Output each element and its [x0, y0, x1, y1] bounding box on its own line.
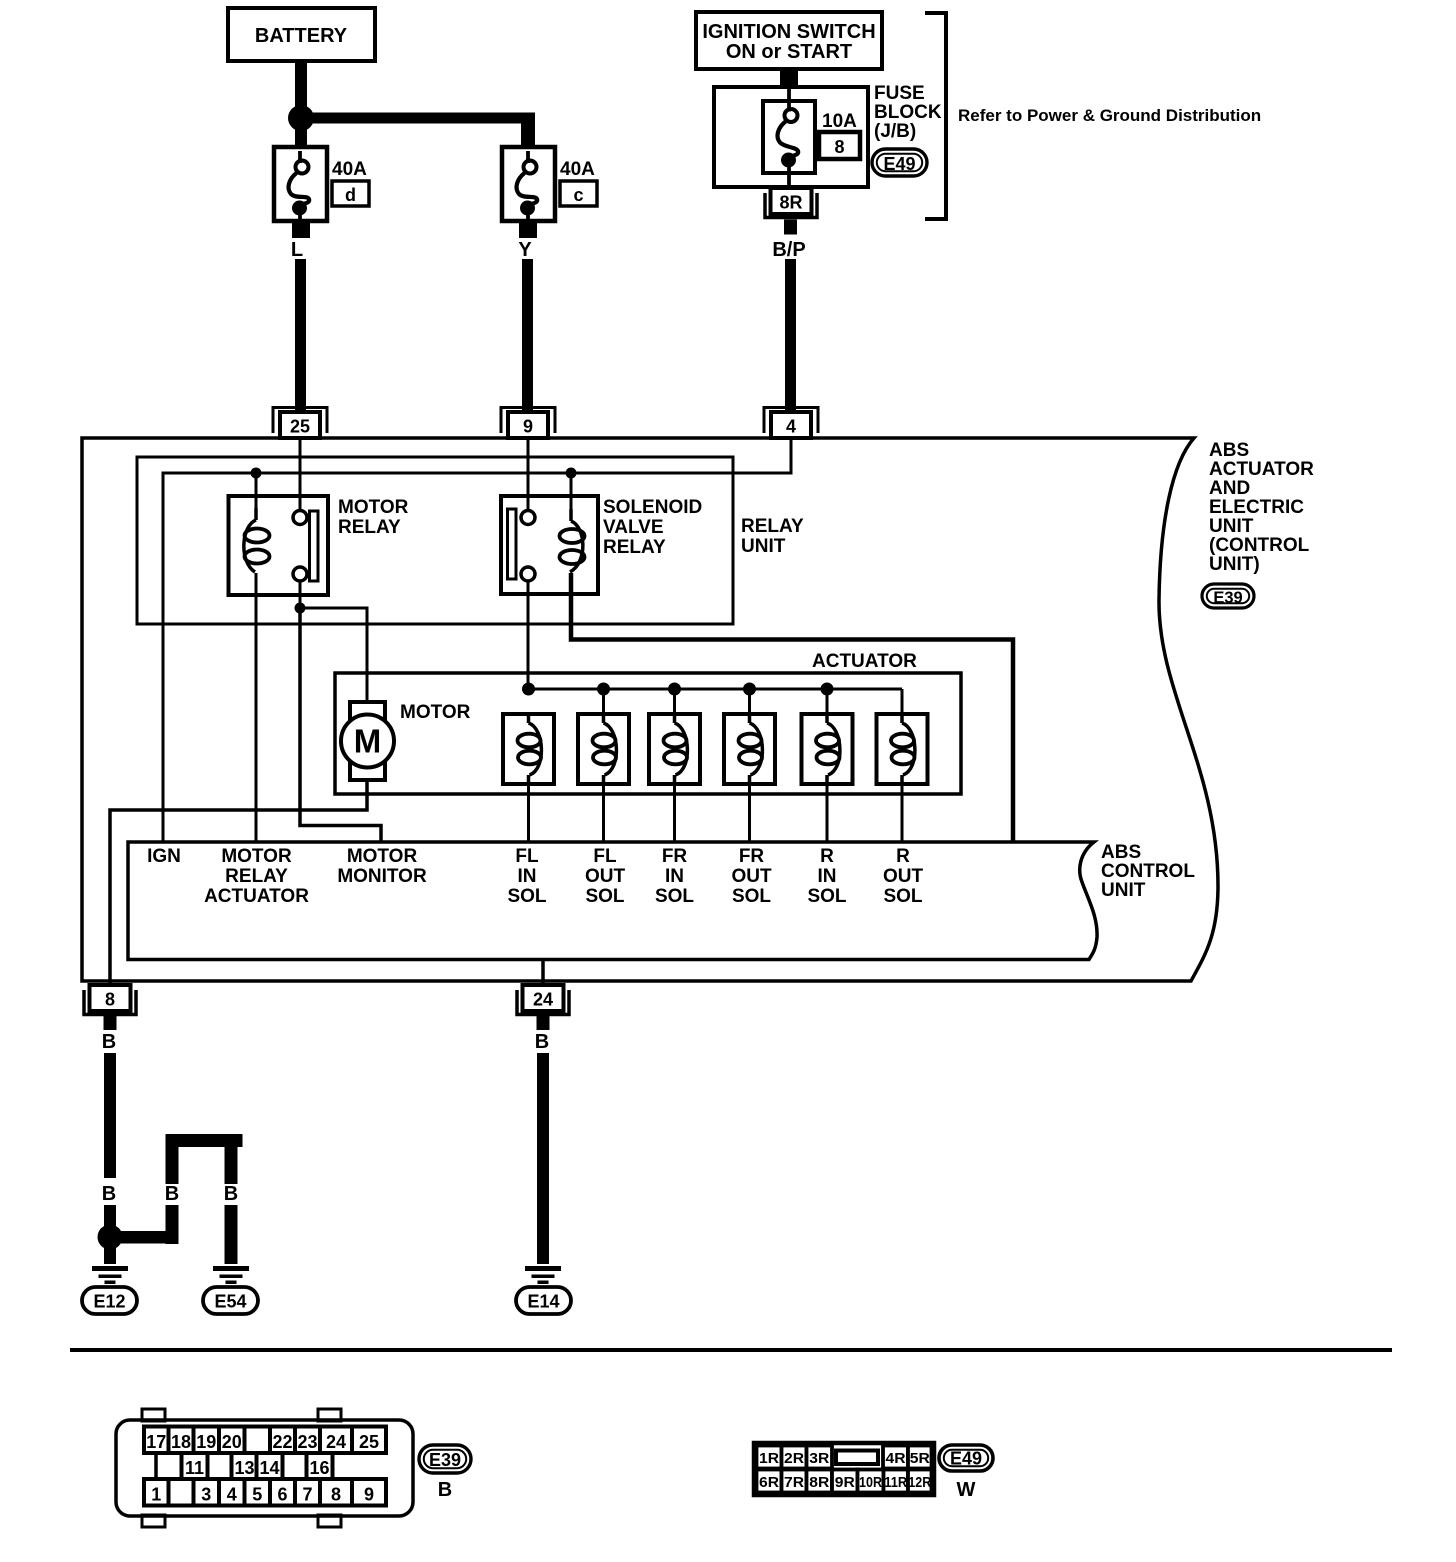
svg-text:SOL: SOL: [655, 886, 694, 907]
svg-text:B/P: B/P: [772, 239, 805, 261]
wire E54 branch down upper (thick): [225, 1147, 238, 1184]
wire stub below fusible link c: [519, 221, 537, 238]
battery B+ feed: BATTERY box: [228, 8, 375, 61]
wire coil feed solenoid valve relay: [570, 473, 573, 509]
terminal box d: [332, 181, 369, 206]
svg-text:17: 17: [146, 1432, 166, 1452]
svg-text:E39: E39: [429, 1450, 461, 1470]
ground symbol E14: [525, 1266, 561, 1271]
svg-text:22: 22: [272, 1432, 292, 1452]
svg-text:MONITOR: MONITOR: [337, 866, 427, 887]
svg-text:11R: 11R: [884, 1474, 907, 1491]
svg-text:14: 14: [259, 1458, 279, 1478]
connector E39 pin row 17-25: [144, 1427, 169, 1454]
svg-text:ABS: ABS: [1209, 440, 1249, 461]
svg-text:IN: IN: [665, 866, 684, 887]
wire B from pin 24 to E14 (thick): [537, 1053, 549, 1264]
fuse number box 8: [819, 132, 860, 159]
relay K1 contact bottom: [293, 567, 307, 581]
relay K2 contact top: [521, 511, 535, 525]
svg-text:RELAY: RELAY: [338, 517, 401, 538]
relay unit box: [137, 457, 733, 624]
svg-text:AND: AND: [1209, 478, 1250, 499]
ground label E54 oval: [203, 1287, 258, 1314]
svg-text:13: 13: [234, 1458, 254, 1478]
svg-text:12R: 12R: [908, 1474, 931, 1491]
svg-text:(CONTROL: (CONTROL: [1209, 535, 1310, 556]
svg-text:R: R: [896, 846, 910, 867]
wire solenoid FL IN to control unit pin: [527, 784, 530, 842]
svg-text:BATTERY: BATTERY: [255, 25, 348, 47]
wire junction down to fusible link d (thick): [295, 128, 307, 148]
svg-text:MOTOR: MOTOR: [338, 497, 409, 518]
svg-text:W: W: [957, 1479, 976, 1501]
svg-text:MOTOR: MOTOR: [400, 702, 471, 723]
svg-text:ACTUATOR: ACTUATOR: [812, 651, 917, 672]
solenoid FL IN coil: [527, 714, 531, 723]
wire E12 below junction (thick): [104, 1245, 116, 1264]
relay K2 solenoid valve relay box: [501, 496, 598, 594]
svg-text:4: 4: [786, 417, 796, 437]
svg-text:9: 9: [523, 417, 533, 437]
relay K1 armature bar: [310, 511, 319, 581]
svg-text:RELAY: RELAY: [603, 537, 666, 558]
terminal box c: [560, 181, 597, 206]
svg-text:24: 24: [326, 1432, 346, 1452]
svg-text:25: 25: [290, 417, 310, 437]
node solenoid bus junction FL IN: [522, 683, 535, 696]
wire pin9 to solenoid relay contact: [527, 438, 530, 511]
svg-text:IN: IN: [818, 866, 837, 887]
svg-text:SOL: SOL: [507, 886, 546, 907]
svg-text:BLOCK: BLOCK: [874, 102, 942, 123]
svg-text:SOL: SOL: [883, 886, 922, 907]
svg-text:8: 8: [331, 1485, 341, 1505]
svg-text:E54: E54: [214, 1292, 246, 1312]
relay K2 contact bottom: [521, 567, 535, 581]
svg-text:1: 1: [151, 1485, 161, 1505]
wire stub below pin 24: [537, 1016, 550, 1030]
svg-text:IGN: IGN: [147, 846, 181, 867]
wire B to junction (thick): [104, 1205, 116, 1229]
svg-text:6R: 6R: [759, 1474, 779, 1491]
wire bus to solenoid R IN: [826, 689, 829, 714]
node junction below motor relay: [295, 603, 306, 614]
svg-text:10R: 10R: [859, 1474, 882, 1491]
wire bus to solenoid R OUT: [901, 689, 904, 714]
svg-text:CONTROL: CONTROL: [1101, 861, 1195, 882]
connector E39 pin row 11-16: [154, 1453, 158, 1479]
wire solenoid relay contact to solenoid bus: [527, 581, 530, 689]
svg-text:SOL: SOL: [585, 886, 624, 907]
fuse block J/B outer box: [714, 87, 868, 187]
wire junction to motor: [300, 608, 367, 702]
svg-text:2R: 2R: [784, 1450, 804, 1467]
svg-text:3R: 3R: [809, 1450, 829, 1467]
svg-text:40A: 40A: [560, 159, 595, 180]
svg-text:ACTUATOR: ACTUATOR: [204, 886, 309, 907]
fuse 10A symbol: [787, 87, 791, 112]
wire stub below fusible link d: [292, 221, 310, 238]
svg-text:9: 9: [364, 1485, 374, 1505]
svg-text:UNIT: UNIT: [1101, 880, 1146, 901]
svg-text:d: d: [345, 185, 356, 205]
wire E54 branch top (thick): [166, 1134, 243, 1147]
svg-text:RELAY: RELAY: [741, 516, 804, 537]
svg-text:19: 19: [196, 1432, 216, 1452]
svg-text:B: B: [165, 1183, 179, 1205]
wire B/P (thick) to pin 4: [785, 259, 796, 413]
connector E39 pin row 1-9: [144, 1479, 169, 1506]
svg-text:6: 6: [277, 1485, 287, 1505]
wire pin25 to motor relay contact: [299, 438, 302, 511]
svg-text:OUT: OUT: [731, 866, 772, 887]
wire battery to junction (thick): [295, 59, 307, 107]
svg-text:10A: 10A: [822, 111, 857, 132]
wire branch corner down to fusible link c (thick): [521, 113, 535, 149]
ground symbol E12: [92, 1266, 128, 1271]
wire E54 branch left riser upper (thick): [166, 1134, 179, 1184]
fusible link d 40A box: [274, 147, 327, 221]
wire stub ignition switch to fuse block: [780, 69, 798, 87]
connector pin 9: [501, 408, 555, 434]
svg-text:E49: E49: [883, 154, 915, 174]
wire Y (thick) to pin 9: [522, 259, 533, 413]
svg-text:7: 7: [302, 1485, 312, 1505]
svg-text:18: 18: [171, 1432, 191, 1452]
svg-text:16: 16: [309, 1458, 329, 1478]
ABS actuator and electric unit (control unit) outline E39: [82, 438, 1218, 981]
IGNITION SWITCH box: [696, 12, 882, 69]
node ground junction dot: [98, 1225, 123, 1250]
wire coil feed motor relay: [255, 473, 258, 508]
node solenoid bus junction FR OUT: [743, 683, 756, 696]
svg-text:E12: E12: [93, 1292, 125, 1312]
svg-text:7R: 7R: [784, 1474, 804, 1491]
connector E49 label oval: [939, 1445, 993, 1471]
svg-text:SOL: SOL: [732, 886, 771, 907]
svg-text:23: 23: [297, 1432, 317, 1452]
solenoid R OUT box: [877, 714, 928, 784]
wire solenoid FL OUT to control unit pin: [602, 784, 605, 842]
svg-text:5: 5: [252, 1485, 262, 1505]
connector pin 24: [523, 985, 564, 1011]
wire L (thick) to pin 25: [295, 259, 306, 413]
svg-text:ON or START: ON or START: [726, 41, 852, 63]
solenoid FR IN box: [649, 714, 700, 784]
wire bus to solenoid FR OUT: [748, 689, 751, 714]
svg-text:8: 8: [105, 990, 115, 1010]
svg-text:20: 20: [222, 1432, 242, 1452]
solenoid FR IN coil: [673, 714, 677, 723]
svg-text:11: 11: [185, 1458, 204, 1478]
solenoid FR OUT box: [724, 714, 775, 784]
wire solenoid FR OUT to control unit pin: [748, 784, 751, 842]
connector E49 pin row 1R-5R: [757, 1446, 782, 1469]
svg-text:E39: E39: [1213, 589, 1242, 607]
node junction dot motor relay coil: [251, 468, 262, 479]
wire solenoid R IN to control unit pin: [826, 784, 829, 842]
solenoid FR OUT coil: [748, 714, 752, 723]
connector pin 25: [273, 408, 327, 434]
node battery junction dot: [288, 105, 314, 131]
svg-text:E49: E49: [950, 1449, 982, 1469]
wire motor relay contact down: [299, 581, 302, 604]
svg-text:c: c: [573, 185, 583, 205]
relay K2 coil: [569, 509, 573, 521]
wire control unit to pin 24: [541, 959, 545, 985]
svg-text:UNIT): UNIT): [1209, 554, 1260, 575]
svg-text:8R: 8R: [779, 193, 802, 213]
connector E49 pin row 6R-12R: [757, 1470, 782, 1493]
svg-text:E14: E14: [527, 1292, 559, 1312]
connector E49 pinout housing: [754, 1443, 934, 1495]
solenoid R IN box: [802, 714, 853, 784]
solenoid FL IN box: [503, 714, 554, 784]
wire junction to E54 branch (thick): [110, 1231, 172, 1244]
svg-text:FUSE: FUSE: [874, 83, 925, 104]
wire solenoid FR IN to control unit pin: [673, 784, 676, 842]
solenoid R OUT coil: [900, 714, 904, 723]
svg-text:FL: FL: [593, 846, 617, 867]
relay K1 motor relay box: [229, 496, 329, 595]
connector label E49 oval: [872, 149, 927, 176]
svg-text:FL: FL: [515, 846, 539, 867]
svg-text:4: 4: [227, 1485, 237, 1505]
wire junction to MOTOR MONITOR pin: [300, 608, 381, 842]
ground label E14 oval: [516, 1287, 571, 1314]
svg-text:UNIT: UNIT: [1209, 516, 1254, 537]
wire solenoid R OUT to control unit pin: [901, 784, 904, 842]
connector E39 pinout housing: [116, 1420, 413, 1516]
wire solenoid relay coil to control unit: [571, 573, 1013, 842]
svg-text:M: M: [354, 723, 382, 760]
separator rule: [70, 1348, 1392, 1352]
svg-text:MOTOR: MOTOR: [221, 846, 292, 867]
svg-text:40A: 40A: [332, 159, 367, 180]
node solenoid bus junction R IN: [821, 683, 834, 696]
svg-text:SOL: SOL: [807, 886, 846, 907]
wire E54 branch left riser lower (thick): [166, 1205, 179, 1244]
solenoid FL OUT coil: [602, 714, 606, 723]
svg-text:UNIT: UNIT: [741, 536, 786, 557]
svg-text:ABS: ABS: [1101, 842, 1141, 863]
solenoid R IN coil: [825, 714, 829, 723]
ground symbol E54: [213, 1266, 249, 1271]
svg-text:4R: 4R: [886, 1450, 906, 1467]
wire B from pin 8 (thick): [104, 1053, 116, 1178]
svg-text:B: B: [102, 1031, 116, 1053]
wire solenoid bus: [528, 688, 902, 691]
svg-text:B: B: [535, 1031, 549, 1053]
svg-text:24: 24: [533, 990, 553, 1010]
svg-text:8R: 8R: [809, 1474, 829, 1491]
actuator box: [335, 673, 961, 794]
connector E39 label oval: [419, 1445, 471, 1473]
motor M1 frame: [350, 702, 385, 780]
svg-text:FR: FR: [739, 846, 765, 867]
ABS control unit box: [128, 842, 1097, 960]
svg-text:25: 25: [359, 1432, 379, 1452]
connector label E39 oval: [1202, 584, 1254, 608]
fusible link d symbol: [298, 151, 302, 163]
svg-text:OUT: OUT: [585, 866, 626, 887]
svg-text:L: L: [291, 239, 303, 261]
wire bus to solenoid FR IN: [673, 689, 676, 714]
connector pin 4: [764, 408, 818, 434]
motor M1 circle: [341, 715, 394, 768]
svg-text:R: R: [820, 846, 834, 867]
svg-text:Y: Y: [518, 239, 532, 261]
svg-text:FR: FR: [662, 846, 688, 867]
fuse 10A inner box: [763, 101, 815, 173]
bracket refer note: [925, 13, 946, 219]
wire bus to solenoid FL OUT: [602, 689, 605, 714]
relay K1 coil: [254, 508, 258, 520]
wire pin4 to IGN net: [163, 438, 791, 842]
svg-text:3: 3: [201, 1485, 211, 1505]
svg-text:RELAY: RELAY: [225, 866, 288, 887]
wire motor relay coil to MOTOR RELAY ACTUATOR pin: [255, 573, 258, 842]
svg-text:B: B: [438, 1479, 452, 1501]
solenoid FL OUT box: [578, 714, 629, 784]
wire E54 branch down lower (thick): [225, 1205, 238, 1264]
svg-text:(J/B): (J/B): [874, 121, 916, 142]
node solenoid bus junction FR IN: [668, 683, 681, 696]
connector 8R: [771, 188, 812, 214]
relay K2 armature bar: [508, 509, 517, 579]
svg-text:VALVE: VALVE: [603, 517, 664, 538]
fusible link c 40A box: [502, 147, 555, 221]
wire junction to fusible link c branch (thick): [307, 113, 535, 124]
node junction dot solenoid relay coil: [566, 468, 577, 479]
relay K1 contact top: [293, 511, 307, 525]
svg-text:B: B: [224, 1183, 238, 1205]
wire motor to ground pin 8: [110, 780, 367, 985]
svg-text:MOTOR: MOTOR: [347, 846, 418, 867]
svg-text:IN: IN: [518, 866, 537, 887]
svg-text:ELECTRIC: ELECTRIC: [1209, 497, 1304, 518]
ground label E12 oval: [82, 1287, 137, 1314]
svg-text:IGNITION SWITCH: IGNITION SWITCH: [702, 21, 875, 43]
svg-text:5R: 5R: [910, 1450, 930, 1467]
svg-text:1R: 1R: [759, 1450, 779, 1467]
wire stub below 8R: [784, 220, 797, 235]
svg-text:Refer to Power & Ground Distri: Refer to Power & Ground Distribution: [958, 106, 1261, 125]
svg-text:B: B: [102, 1183, 116, 1205]
svg-text:SOLENOID: SOLENOID: [603, 497, 702, 518]
svg-text:9R: 9R: [835, 1474, 855, 1491]
fusible link c symbol: [526, 151, 530, 163]
node solenoid bus junction FL OUT: [597, 683, 610, 696]
svg-text:8: 8: [834, 137, 844, 157]
connector pin 8: [90, 985, 131, 1011]
wire stub below pin 8: [104, 1016, 117, 1030]
svg-text:OUT: OUT: [883, 866, 924, 887]
svg-text:ACTUATOR: ACTUATOR: [1209, 459, 1314, 480]
